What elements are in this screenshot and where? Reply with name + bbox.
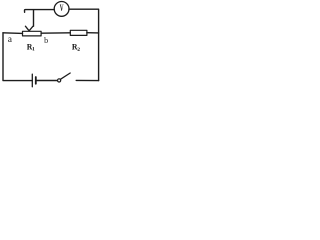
svg-text:V: V xyxy=(60,2,64,13)
svg-text:a: a xyxy=(8,35,13,45)
svg-text:2: 2 xyxy=(77,47,80,53)
svg-text:b: b xyxy=(44,36,48,45)
svg-text:1: 1 xyxy=(32,47,35,53)
